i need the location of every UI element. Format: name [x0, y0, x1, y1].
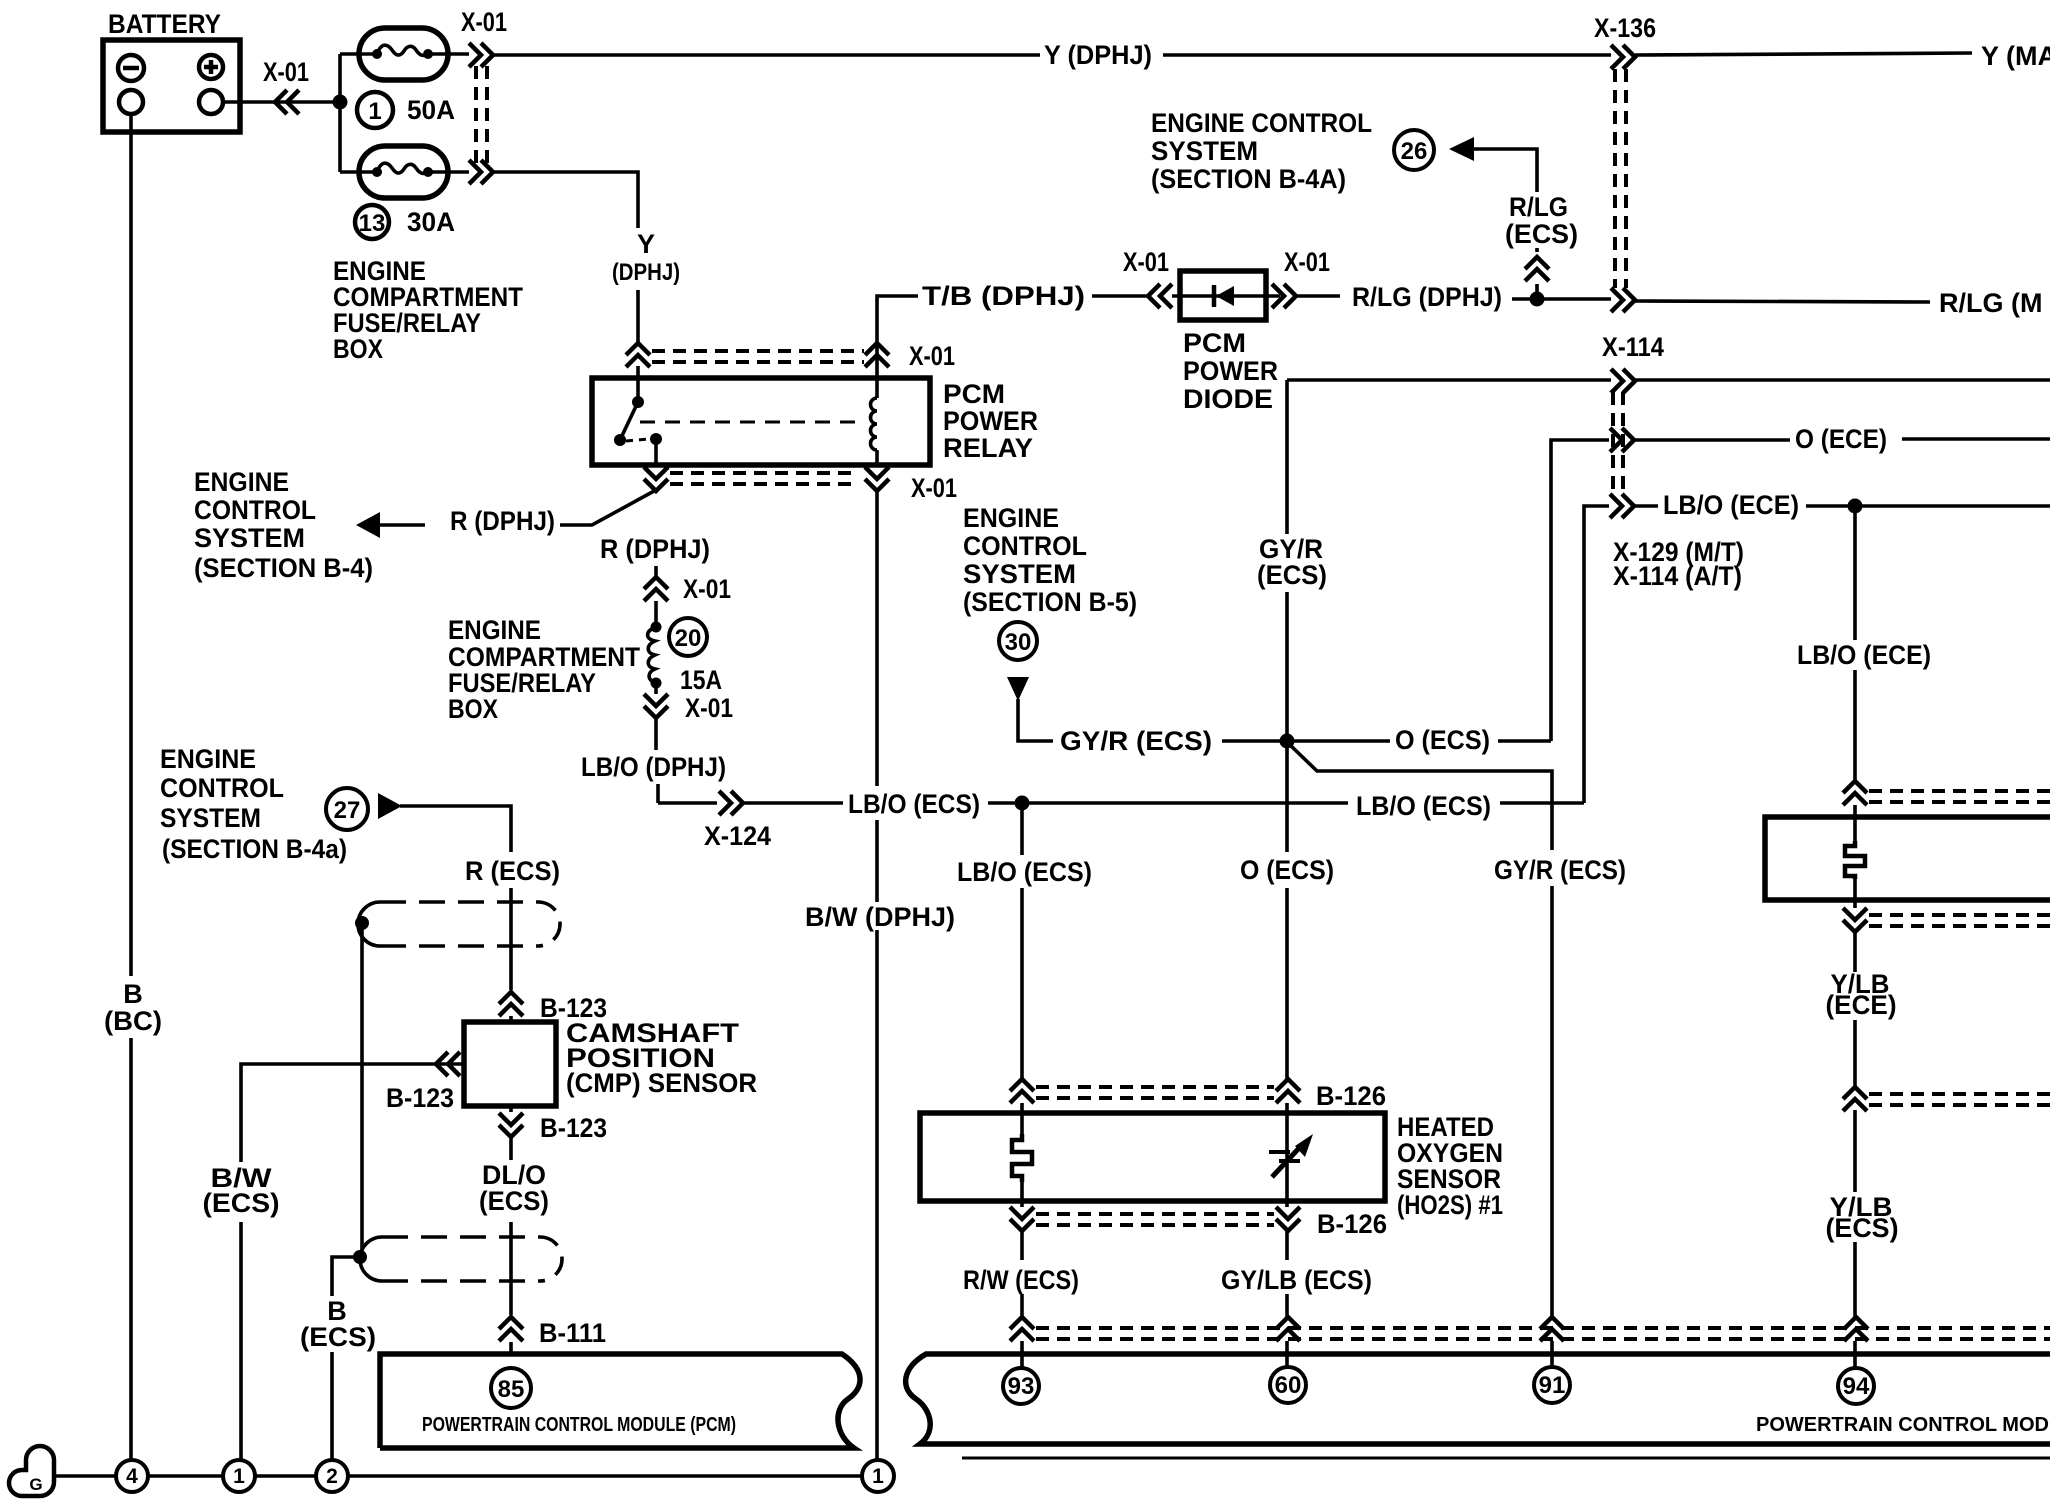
connector X-01 chevron (fuse 13 output): [469, 160, 493, 184]
svg-text:X-01: X-01: [909, 341, 955, 371]
svg-text:ENGINE: ENGINE: [963, 503, 1059, 533]
wire B (BC) battery negative down: [129, 114, 133, 1460]
svg-text:13: 13: [359, 210, 386, 237]
svg-text:Y (DPHJ): Y (DPHJ): [1044, 40, 1152, 70]
svg-text:LB/O (DPHJ): LB/O (DPHJ): [581, 752, 726, 782]
svg-text:(DPHJ): (DPHJ): [612, 259, 680, 286]
svg-text:PCM: PCM: [1183, 328, 1246, 358]
svg-text:B: B: [123, 979, 143, 1009]
connector X-136 dashed boundary: [1615, 69, 1626, 288]
connector B-123 chevron above CMP: [499, 992, 523, 1016]
svg-text:1: 1: [368, 98, 381, 125]
svg-text:R (DPHJ): R (DPHJ): [450, 506, 555, 536]
sensor element HO2S1: [1269, 1134, 1313, 1177]
svg-text:27: 27: [334, 797, 361, 824]
svg-text:(ECS): (ECS): [1257, 560, 1327, 590]
wire shield drain vertical: [360, 929, 364, 1252]
svg-text:ENGINE CONTROL: ENGINE CONTROL: [1151, 108, 1372, 138]
shielded cable oval lower: [360, 1237, 562, 1281]
wire Y branch from fuse 13 down to relay: [494, 172, 638, 342]
connector X-01 chevrons below relay: [644, 467, 668, 491]
heater element HO2S2: [1845, 841, 1865, 879]
connector X-136 chevron on R/LG wire: [1611, 288, 1635, 312]
label CAMSHAFT POSITION (CMP) SENSOR: [566, 1018, 757, 1098]
connector X-01 chevron (battery side): [275, 90, 299, 114]
svg-text:GY/R (ECS): GY/R (ECS): [1494, 855, 1626, 885]
wire LB/O (ECS) branch down to heater: [1020, 810, 1024, 1134]
powertrain control module PCM right box: [906, 1354, 2050, 1444]
svg-text:RELAY: RELAY: [943, 433, 1033, 463]
node junction dot LB/O: [1015, 796, 1030, 811]
svg-text:R (ECS): R (ECS): [465, 856, 560, 886]
fuse 13 30A: [340, 146, 469, 239]
svg-text:X-114 (A/T): X-114 (A/T): [1613, 561, 1742, 591]
svg-text:POWER: POWER: [943, 406, 1038, 436]
ground symbol G: [9, 1446, 54, 1496]
svg-text:X-114: X-114: [1602, 332, 1664, 362]
connector B-126 dashed boundary top: [1036, 1087, 1274, 1098]
node dot R/LG branch: [1530, 292, 1545, 307]
wire R/LG to X-136: [1512, 297, 1611, 301]
svg-text:Y (MA: Y (MA: [1981, 41, 2050, 71]
wire O (ECS) horizontal: [1293, 739, 1390, 743]
svg-text:O (ECE): O (ECE): [1795, 424, 1887, 454]
svg-text:R/W (ECS): R/W (ECS): [963, 1265, 1079, 1295]
svg-text:SYSTEM: SYSTEM: [160, 803, 261, 833]
svg-text:ENGINE: ENGINE: [448, 615, 541, 645]
wire junction vertical to both fuses: [338, 54, 342, 172]
svg-text:ENGINE: ENGINE: [160, 744, 256, 774]
connector chevron mid Y/LB: [1843, 1087, 1867, 1111]
connector chevron O (ECE): [1610, 428, 1634, 452]
wire ground bus: [54, 1474, 862, 1478]
svg-text:BATTERY: BATTERY: [108, 9, 221, 39]
svg-text:1: 1: [233, 1465, 245, 1488]
svg-text:(SECTION B-4A): (SECTION B-4A): [1151, 164, 1346, 194]
node dot LB/O (ECE) branch: [1848, 499, 1863, 514]
svg-text:B-126: B-126: [1316, 1081, 1386, 1111]
arrow from section B-4a: [378, 793, 402, 819]
wire Y (DPHJ) continues to X-136: [1163, 53, 1611, 57]
svg-text:CONTROL: CONTROL: [160, 773, 284, 803]
svg-text:(SECTION B-4a): (SECTION B-4a): [162, 834, 347, 864]
connector dashed boundary above HO2S2: [1869, 791, 2050, 802]
camshaft position sensor CMP: [464, 1022, 556, 1106]
svg-text:X-01: X-01: [1284, 247, 1330, 277]
svg-text:X-01: X-01: [911, 473, 957, 503]
wire sensor to B-126 lower: [1285, 1196, 1289, 1368]
svg-text:(ECS): (ECS): [203, 1188, 280, 1218]
wire O (ECS) vertical to sensor: [1285, 741, 1289, 1196]
svg-text:POWERTRAIN CONTROL MODULE (PCM: POWERTRAIN CONTROL MODULE (PCM): [422, 1414, 736, 1436]
wire GY/R (ECS) to junction: [1222, 739, 1281, 743]
connector X-01 chevron (fuse 1 output): [469, 43, 493, 67]
svg-text:O (ECS): O (ECS): [1240, 855, 1334, 885]
svg-text:SYSTEM: SYSTEM: [194, 523, 305, 553]
connector X-124 chevron: [719, 791, 743, 815]
svg-text:B-126: B-126: [1317, 1209, 1387, 1239]
svg-text:1: 1: [872, 1465, 884, 1488]
node circled 2: [316, 1460, 348, 1492]
node circled 4: [116, 1460, 148, 1492]
label PCM POWER DIODE: [1183, 328, 1278, 414]
wire GY/R (ECS) stub from B-5: [1018, 699, 1053, 741]
arrow from section B-5: [1007, 677, 1029, 701]
svg-text:4: 4: [126, 1465, 138, 1488]
svg-text:R/LG (DPHJ): R/LG (DPHJ): [1352, 282, 1502, 312]
svg-text:B/W (DPHJ): B/W (DPHJ): [805, 902, 955, 932]
powertrain control module PCM left box: [380, 1354, 860, 1448]
wire LB/O (ECS) horizontal: [658, 801, 843, 805]
svg-text:R (DPHJ): R (DPHJ): [600, 534, 710, 564]
svg-text:LB/O (ECS): LB/O (ECS): [957, 857, 1092, 887]
label engine compartment fuse/relay box (top): [333, 256, 523, 364]
wire LB/O continues right: [1029, 801, 1348, 805]
connector X-01 dashed boundary: [476, 66, 487, 170]
node shield drain dot upper: [355, 916, 369, 930]
svg-text:CONTROL: CONTROL: [963, 531, 1087, 561]
svg-text:20: 20: [675, 625, 702, 652]
svg-text:Y: Y: [637, 229, 655, 259]
svg-text:X-124: X-124: [704, 821, 771, 851]
connector X-01 dashed boundary above relay: [652, 351, 864, 362]
wire R to fuse 20: [654, 566, 658, 578]
heated oxygen sensor HO2S no2 box: [1765, 817, 2050, 900]
wire LB/O to junction dot: [988, 801, 1016, 805]
svg-text:(SECTION B-4): (SECTION B-4): [194, 553, 373, 583]
fuse 20 15A: [648, 618, 722, 695]
svg-text:X-01: X-01: [461, 7, 507, 37]
svg-text:(ECS): (ECS): [479, 1186, 549, 1216]
PCM power relay: [592, 366, 930, 466]
wire X-114 feed line: [1287, 378, 2050, 382]
svg-text:X-136: X-136: [1594, 13, 1656, 43]
connector X-136 chevron on Y wire: [1611, 45, 1635, 69]
connector B-123 chevron below CMP: [499, 1113, 523, 1137]
wire Y (MAIN) to right edge: [1635, 53, 1972, 55]
svg-text:ENGINE: ENGINE: [194, 467, 289, 497]
pin 93: [1003, 1368, 1039, 1404]
heated oxygen sensor HO2S no1 box: [920, 1113, 1385, 1201]
arrow to section B-4A: [1449, 137, 1474, 161]
node junction dot GY/R: [1280, 734, 1295, 749]
wire R/LG (ECS) branch up: [1474, 149, 1537, 299]
node circled 30: [999, 622, 1037, 660]
connector dashed boundary below HO2S2: [1869, 915, 2050, 926]
svg-text:93: 93: [1008, 1373, 1035, 1400]
pin 91: [1534, 1367, 1570, 1403]
svg-text:(SECTION B-5): (SECTION B-5): [963, 587, 1137, 617]
node circled 1: [223, 1460, 255, 1492]
wire B/W (ECS) from CMP left: [241, 1064, 464, 1460]
svg-text:DIODE: DIODE: [1183, 384, 1273, 414]
node junction dot at fuse feed: [333, 95, 348, 110]
wire LB/O (ECE) branch down to HO2S2: [1853, 512, 1857, 841]
wire B/W (DPHJ) from relay down: [875, 490, 879, 1460]
wire DL/O (ECS) from CMP bottom: [509, 1106, 513, 1354]
svg-text:GY/R (ECS): GY/R (ECS): [1060, 726, 1212, 756]
svg-text:SYSTEM: SYSTEM: [1151, 136, 1258, 166]
svg-text:(HO2S) #1: (HO2S) #1: [1397, 1190, 1503, 1220]
wire T/B (DPHJ) from relay coil up: [877, 296, 918, 378]
connector B-126 chevrons above box: [1010, 1079, 1034, 1103]
svg-text:94: 94: [1843, 1373, 1870, 1400]
label HEATED OXYGEN SENSOR (HO2S) #1: [1397, 1112, 1503, 1220]
wire O (ECE) line: [1551, 439, 2050, 741]
svg-text:LB/O (ECE): LB/O (ECE): [1797, 640, 1931, 670]
svg-text:R/LG: R/LG: [1509, 192, 1568, 222]
svg-text:50A: 50A: [407, 95, 455, 125]
heater element HO2S1: [1012, 1134, 1032, 1182]
connector B-123 chevron left of CMP: [436, 1052, 460, 1076]
shielded cable oval upper: [358, 902, 560, 946]
battery: [103, 9, 240, 132]
wire R (DPHJ) from relay to section B-4: [379, 490, 656, 525]
wire T/B to diode: [1092, 294, 1148, 298]
svg-text:O (ECS): O (ECS): [1395, 725, 1490, 755]
connector B-126 dashed boundary bottom: [1036, 1214, 1274, 1225]
wire battery positive to fuse junction: [223, 100, 334, 104]
svg-text:G: G: [29, 1475, 42, 1494]
arrow to section B-4: [356, 512, 380, 538]
svg-text:B-123: B-123: [386, 1083, 454, 1113]
svg-text:BOX: BOX: [333, 334, 383, 364]
connector dashed boundary mid Y/LB: [1869, 1094, 2050, 1105]
PCM power diode: [1172, 271, 1280, 320]
svg-text:LB/O (ECS): LB/O (ECS): [1356, 791, 1491, 821]
svg-text:91: 91: [1539, 1372, 1566, 1399]
wire into fuse 20: [654, 601, 658, 627]
connector X-114 chevron: [1611, 369, 1635, 393]
connector chevron R/LG branch: [1525, 257, 1549, 281]
label engine control system section B-4: [194, 467, 373, 583]
wire LB/O to LB/O (ECE) corner: [1500, 801, 1584, 805]
wire O (ECS) to O (ECE) corner: [1498, 739, 1551, 743]
svg-text:PCM: PCM: [943, 379, 1005, 409]
svg-text:POWER: POWER: [1183, 356, 1278, 386]
svg-text:X-01: X-01: [683, 574, 731, 604]
svg-text:30: 30: [1005, 629, 1032, 656]
connector X-129/X-114 dashed boundary: [1613, 392, 1623, 496]
wire GY/R jog to pin 91: [1289, 744, 1552, 1368]
connector B-111 chevron: [499, 1317, 523, 1341]
svg-text:(ECS): (ECS): [1505, 219, 1578, 249]
wire R (ECS) from B-4a: [400, 806, 511, 1022]
svg-text:26: 26: [1401, 138, 1428, 165]
powertrain control module PCM right box lower edge: [962, 1457, 2050, 1460]
svg-text:X-01: X-01: [263, 57, 309, 87]
svg-text:X-01: X-01: [1123, 247, 1169, 277]
wire B (ECS) from shield to ground: [332, 1257, 360, 1460]
wire Y (DPHJ) main feed top line: [494, 53, 1040, 57]
svg-text:85: 85: [498, 1376, 525, 1403]
svg-text:60: 60: [1275, 1372, 1302, 1399]
wire LB/O (DPHJ) down: [656, 718, 658, 803]
svg-text:B-111: B-111: [539, 1318, 606, 1348]
node circled 1 right: [862, 1460, 894, 1492]
connector X-01 chevron (diode right): [1272, 284, 1296, 308]
svg-text:B-123: B-123: [540, 1113, 607, 1143]
connector chevron below HO2S2: [1843, 908, 1867, 932]
connector X-01 chevron above fuse 20: [644, 577, 668, 601]
node circled 26: [1394, 130, 1434, 170]
svg-text:(BC): (BC): [104, 1006, 162, 1036]
label engine control system section B-4a: [160, 744, 347, 864]
connector chevron above HO2S2: [1843, 781, 1867, 805]
wire HO2S2 heater down: [1853, 879, 1857, 1368]
svg-text:LB/O (ECE): LB/O (ECE): [1663, 490, 1799, 520]
connector X-01 chevrons above relay: [626, 343, 650, 367]
svg-text:BOX: BOX: [448, 694, 498, 724]
connector X-01 dashed boundary below relay: [670, 473, 856, 484]
fuse 1 50A: [340, 28, 469, 128]
connector PCM chevrons: [1010, 1317, 1034, 1341]
svg-text:POWERTRAIN CONTROL MODULE: POWERTRAIN CONTROL MODULE: [1756, 1414, 2050, 1436]
svg-text:30A: 30A: [407, 207, 455, 237]
svg-text:(ECS): (ECS): [1826, 1213, 1899, 1243]
node shield drain dot lower: [353, 1250, 367, 1264]
pin 85: [491, 1368, 531, 1408]
wire R/LG (DPHJ): [1296, 294, 1340, 298]
connector B-126 chevrons below box: [1010, 1207, 1034, 1231]
label engine control system section B-4A: [1151, 108, 1372, 194]
node circled 27: [326, 788, 368, 830]
svg-text:X-01: X-01: [685, 693, 733, 723]
svg-text:(ECE): (ECE): [1826, 990, 1897, 1020]
svg-text:T/B (DPHJ): T/B (DPHJ): [922, 281, 1085, 311]
wire out of fuse 20: [654, 683, 658, 694]
svg-text:GY/LB (ECS): GY/LB (ECS): [1221, 1265, 1372, 1295]
pin 60: [1270, 1367, 1306, 1403]
label engine control system section B-5: [963, 503, 1137, 617]
wire heater to B-126 lower: [1020, 1182, 1024, 1368]
connector PCM dashed boundary: [1036, 1328, 2050, 1339]
wire GY/R (ECS) main vertical: [1285, 380, 1289, 734]
pin 94: [1838, 1368, 1874, 1404]
svg-text:R/LG (M: R/LG (M: [1939, 288, 2042, 318]
wire LB/O (ECE) line: [1584, 506, 2050, 803]
svg-text:15A: 15A: [680, 665, 722, 695]
svg-text:LB/O (ECS): LB/O (ECS): [848, 789, 980, 819]
svg-text:(ECS): (ECS): [300, 1322, 376, 1352]
svg-text:CONTROL: CONTROL: [194, 495, 316, 525]
connector chevron LB/O (ECE): [1610, 494, 1634, 518]
connector X-01 chevron below fuse 20: [644, 694, 668, 718]
svg-text:SYSTEM: SYSTEM: [963, 559, 1076, 589]
svg-text:(CMP) SENSOR: (CMP) SENSOR: [566, 1068, 757, 1098]
connector X-01 chevron (diode left): [1148, 284, 1172, 308]
label engine compartment fuse/relay box (lower): [448, 615, 640, 724]
label PCM POWER RELAY: [943, 379, 1038, 463]
wire R/LG (MAIN) to right edge: [1635, 301, 1930, 302]
svg-text:2: 2: [326, 1465, 338, 1488]
